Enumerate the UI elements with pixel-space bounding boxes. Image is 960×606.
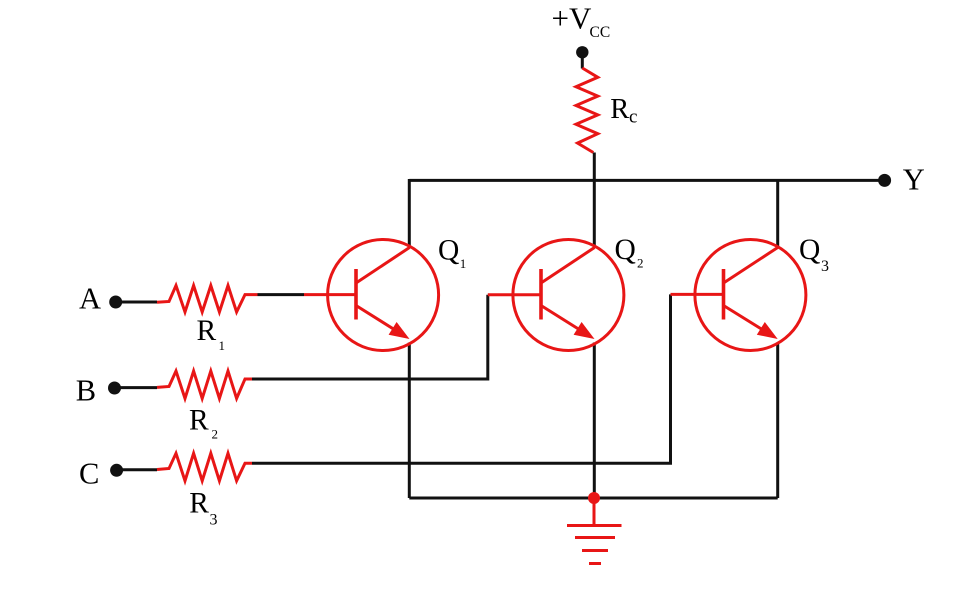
svg-text:3: 3: [821, 258, 829, 275]
svg-text:R: R: [197, 315, 217, 347]
svg-text:1: 1: [219, 338, 226, 353]
node ground junction: [588, 492, 600, 504]
wire ground rail: [409, 497, 777, 500]
node B terminal: [108, 382, 121, 395]
svg-text:3: 3: [210, 512, 218, 529]
svg-text:2: 2: [212, 426, 219, 441]
wire C to R3: [117, 468, 157, 471]
svg-text:Q: Q: [799, 234, 820, 266]
svg-text:Y: Y: [903, 162, 925, 196]
label R2: [189, 405, 218, 442]
wire Q3 collector drop: [776, 180, 779, 247]
transistor Q3: [671, 240, 806, 351]
resistor RC: [576, 68, 598, 153]
svg-text:Q: Q: [615, 234, 636, 266]
label Q1: [438, 235, 466, 272]
wire Q2 emitter to ground rail: [593, 343, 596, 499]
label +Vcc: [552, 1, 611, 41]
wire Q1 emitter to ground rail: [408, 343, 411, 499]
svg-text:CC: CC: [590, 24, 611, 41]
label R1: [197, 315, 226, 353]
resistor R1: [157, 286, 258, 313]
wire Q1 collector drop: [408, 179, 411, 248]
svg-text:A: A: [79, 282, 101, 316]
svg-text:B: B: [76, 374, 96, 408]
wire Y rail: [409, 179, 878, 182]
svg-text:2: 2: [637, 256, 644, 271]
resistor R3: [157, 453, 252, 481]
svg-text:+V: +V: [552, 1, 592, 36]
svg-text:C: C: [79, 456, 99, 490]
ground: [567, 498, 622, 564]
label RC: [610, 94, 637, 128]
wire Q3 emitter to ground rail: [776, 343, 779, 499]
wire R3 to Q3 base riser: [252, 294, 671, 463]
resistor R2: [157, 371, 252, 399]
wire B to R2: [115, 386, 158, 389]
svg-text:R: R: [189, 405, 209, 437]
svg-text:Q: Q: [438, 235, 459, 267]
wire A to R1: [116, 301, 157, 304]
transistor Q1: [304, 240, 439, 351]
svg-text:1: 1: [460, 256, 467, 271]
label Q3: [799, 234, 829, 275]
svg-text:c: c: [629, 107, 637, 128]
svg-text:R: R: [610, 94, 629, 125]
node +Vcc terminal: [576, 46, 588, 58]
wire R1 to Q1 base: [258, 293, 305, 296]
transistor Q2: [488, 240, 624, 351]
label R3: [189, 487, 217, 528]
svg-text:R: R: [189, 487, 209, 519]
node Y terminal: [878, 174, 891, 187]
node C terminal: [110, 464, 123, 477]
wire Vcc stub: [581, 52, 584, 68]
wire R2 to Q2 base riser: [252, 295, 488, 379]
node A terminal: [109, 296, 122, 309]
label Q2: [615, 234, 644, 271]
wire RC to Q2 collector: [593, 153, 596, 248]
